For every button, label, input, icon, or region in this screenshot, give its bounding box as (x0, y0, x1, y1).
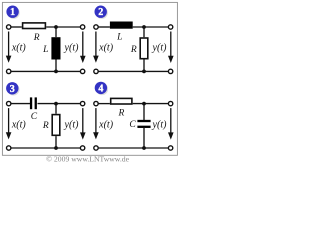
svg-text:4: 4 (98, 83, 103, 94)
resistor R1 (series) (23, 23, 46, 29)
junction node c3 bottom (54, 146, 58, 150)
wire c2 top-right (133, 26, 171, 28)
svg-text:R: R (117, 108, 124, 118)
wire c2 bottom (98, 70, 170, 72)
junction node c1 top (54, 25, 58, 29)
terminal c2 in- (94, 69, 98, 73)
wire c1 bottom (11, 70, 83, 72)
svg-text:3: 3 (10, 84, 15, 95)
arrow y(t) c4 (170, 108, 172, 134)
arrow x(t) c2 (95, 32, 97, 57)
junction node c4 bottom (142, 146, 146, 150)
terminal c2 in+ (94, 25, 98, 29)
badge 1 (6, 6, 18, 18)
inductor L1 (shunt) (51, 37, 60, 59)
wire c4 cap bottom to node (143, 128, 145, 148)
svg-text:R: R (42, 121, 49, 131)
wire c2 shunt bottom to node (143, 60, 145, 72)
wire c2 node to shunt top (143, 27, 145, 37)
svg-text:R: R (130, 45, 137, 55)
svg-text:L: L (42, 45, 48, 55)
wire c1 top-left (11, 26, 22, 28)
inductor L2 (series) (110, 22, 133, 29)
wire c1 top-right (46, 26, 82, 28)
terminal c3 in- (7, 146, 11, 150)
wire c3 top-left (11, 103, 31, 105)
capacitor C3 plate left (30, 97, 32, 109)
badge 2 shadow (96, 7, 108, 19)
badge 4 (95, 82, 107, 94)
terminal c1 in+ (7, 25, 11, 29)
wire c4 bottom (98, 147, 170, 149)
badge 3 shadow (7, 83, 19, 95)
terminal c1 in- (7, 69, 11, 73)
terminal c4 out+ (168, 101, 172, 105)
wire c3 bottom (11, 147, 83, 149)
svg-text:x(t): x(t) (98, 119, 114, 130)
terminal c1 out+ (80, 25, 84, 29)
wire c3 node to shunt top (55, 104, 57, 114)
wire c4 node to cap top (143, 104, 145, 120)
svg-text:1: 1 (10, 7, 15, 18)
arrow y(t) c1 (82, 32, 84, 58)
terminal c3 in+ (7, 101, 11, 105)
border frame (2, 2, 177, 155)
wire c3 shunt bottom to node (55, 136, 57, 148)
svg-text:© 2009 www.LNTwww.de: © 2009 www.LNTwww.de (46, 154, 129, 163)
svg-text:2: 2 (98, 7, 103, 18)
arrow x(t) c1 (8, 32, 10, 57)
wire c1 node to shunt top (55, 27, 57, 37)
wire c4 top-right (133, 103, 171, 105)
svg-text:L: L (116, 33, 122, 43)
svg-text:y(t): y(t) (64, 43, 80, 54)
svg-text:C: C (129, 120, 136, 130)
arrow y(t) c3 (82, 108, 84, 134)
badge 3 (6, 82, 18, 94)
badge 2 (95, 6, 107, 18)
terminal c4 in+ (94, 101, 98, 105)
svg-text:y(t): y(t) (152, 119, 168, 130)
svg-text:y(t): y(t) (64, 119, 80, 130)
junction node c3 top (54, 102, 58, 106)
resistor R4 (series) (111, 98, 132, 104)
terminal c1 out- (80, 69, 84, 73)
svg-text:y(t): y(t) (152, 43, 168, 54)
junction node c4 top (142, 102, 146, 106)
terminal c4 out- (168, 146, 172, 150)
wire c4 top-left (98, 103, 110, 105)
resistor R2 (shunt) (140, 38, 148, 59)
capacitor C4 plate bottom (137, 126, 150, 128)
terminal c4 in- (94, 146, 98, 150)
terminal c3 out- (80, 146, 84, 150)
junction node c2 bottom (142, 70, 146, 74)
junction node c2 top (142, 25, 146, 29)
terminal c2 out+ (168, 25, 172, 29)
svg-text:x(t): x(t) (11, 43, 27, 54)
svg-text:C: C (31, 112, 38, 122)
badge 4 shadow (96, 83, 108, 95)
terminal c2 out- (168, 69, 172, 73)
wire c3 top-right (38, 103, 83, 105)
svg-text:x(t): x(t) (11, 119, 27, 130)
capacitor C4 plate top (137, 120, 150, 122)
svg-text:R: R (33, 33, 40, 43)
arrow x(t) c3 (8, 108, 10, 133)
badge 1 shadow (8, 7, 20, 19)
wire c2 top-left (98, 26, 110, 28)
resistor R3 (shunt) (52, 115, 60, 136)
junction node c1 bottom (54, 70, 58, 74)
arrow y(t) c2 (170, 32, 172, 58)
wire c1 shunt bottom to node (55, 60, 57, 72)
arrow x(t) c4 (95, 108, 97, 133)
terminal c3 out+ (80, 101, 84, 105)
capacitor C3 plate right (35, 97, 37, 109)
svg-text:x(t): x(t) (98, 43, 114, 54)
